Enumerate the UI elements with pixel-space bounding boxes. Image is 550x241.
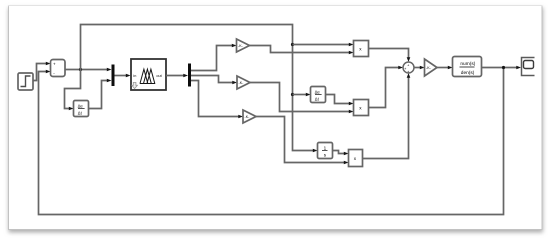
wire gain G4 to plant: [437, 67, 448, 69]
svg-text:1: 1: [324, 145, 327, 150]
integrator input arrowhead: [313, 149, 318, 153]
product P3 input-1 arrowhead: [344, 152, 349, 156]
wire e to derivative D1: [65, 70, 81, 109]
svg-text:-K-: -K-: [238, 44, 244, 48]
node feedback junction: [502, 66, 505, 69]
wire product P2 to sum S2 left: [369, 68, 399, 108]
product P2 input-2 arrowhead: [349, 110, 354, 114]
scope block: [522, 58, 535, 76]
sum block S1: [51, 60, 66, 77]
transfer function block num(s)/den(s): [453, 57, 482, 77]
gain G3 input arrowhead: [238, 115, 243, 119]
integrator block 1/s: [318, 143, 333, 159]
gain G3: [243, 110, 256, 123]
wire derivative D1 to mux: [89, 81, 108, 109]
product block P3: [349, 150, 363, 167]
svg-text:den(s): den(s): [461, 70, 475, 76]
wire demux out1 to gain G1: [191, 46, 232, 71]
demux input arrowhead: [183, 74, 188, 78]
wire plant to scope: [482, 67, 517, 69]
plant input arrowhead: [448, 66, 453, 70]
svg-text:Δe: Δe: [315, 90, 321, 95]
wire product P3 to sum S2 bottom: [363, 77, 409, 158]
sum S1 input-2 arrowhead: [46, 70, 51, 74]
wire demux out3 to gain G3: [191, 81, 239, 117]
product P3 input-2 arrowhead: [344, 161, 349, 165]
wire sum output to mux: [65, 69, 107, 71]
node e branch to derivative D2: [291, 93, 294, 96]
wire e top route: [81, 25, 314, 151]
wire e to product P1 input-1: [293, 44, 350, 46]
sum S1 input-1 arrowhead: [46, 62, 51, 66]
wire demux out2 to gain G2: [191, 76, 233, 83]
gain G2 input arrowhead: [232, 81, 237, 85]
wire e to derivative D2: [293, 94, 307, 96]
gain G4 input arrowhead: [420, 66, 425, 70]
wire mux to fuzzy controller: [115, 75, 127, 77]
scope input arrowhead: [516, 66, 521, 70]
sum S2 top arrowhead: [407, 57, 411, 62]
svg-text:Δe: Δe: [78, 104, 84, 109]
mux input-1 arrowhead: [107, 68, 112, 72]
product P2 input-1 arrowhead: [349, 102, 354, 106]
derivative D2 input arrowhead: [306, 93, 311, 97]
mux input-2 arrowhead: [107, 79, 112, 83]
gain G1 input arrowhead: [232, 44, 237, 48]
svg-text:num(s): num(s): [460, 61, 475, 67]
wire derivative D2 to product P2 input-1: [326, 95, 350, 104]
product P1 input-2 arrowhead: [349, 51, 354, 55]
demux D: [188, 64, 191, 87]
wire gain G1 to product P1 input-2: [250, 46, 350, 53]
svg-text:+: +: [53, 61, 56, 66]
wire feedback into sum: [39, 68, 504, 215]
svg-text:-K-: -K-: [426, 66, 432, 70]
derivative block D2 de/dt: [311, 87, 326, 103]
wire gain G2 to product P2 input-2: [250, 83, 349, 112]
wire sum S2 to gain G4: [414, 67, 420, 69]
wire product P1 to sum S2 top: [369, 49, 409, 58]
derivative block D1 de/dt: [74, 101, 89, 117]
product block P1: [354, 41, 369, 57]
wire fuzzy to demux: [166, 75, 184, 77]
sum S2 bottom arrowhead: [407, 73, 411, 78]
gain G4: [425, 59, 438, 76]
node e junction: [79, 68, 82, 71]
mux M1: [112, 65, 115, 87]
svg-text:-K-: -K-: [245, 115, 251, 119]
sum S2 left arrowhead: [398, 66, 403, 70]
svg-text:-K-: -K-: [239, 81, 245, 85]
product P1 input-1 arrowhead: [349, 43, 354, 47]
node e branch to product P1: [291, 43, 294, 46]
step source block: [18, 73, 33, 90]
svg-text:in: in: [133, 74, 136, 78]
fuzzy logic controller block: [131, 59, 166, 90]
wire step to sum: [33, 64, 46, 81]
wire gain G3 to product P3 input-2: [256, 117, 344, 163]
wire integrator to product P3 input-1: [333, 151, 345, 154]
gain G2: [237, 76, 250, 89]
fuzzy input arrowhead: [126, 74, 131, 78]
sum junction S2 circle: [403, 62, 414, 74]
derivative D1 input arrowhead: [69, 107, 74, 111]
product block P2: [354, 100, 369, 116]
gain G1: [237, 39, 250, 52]
